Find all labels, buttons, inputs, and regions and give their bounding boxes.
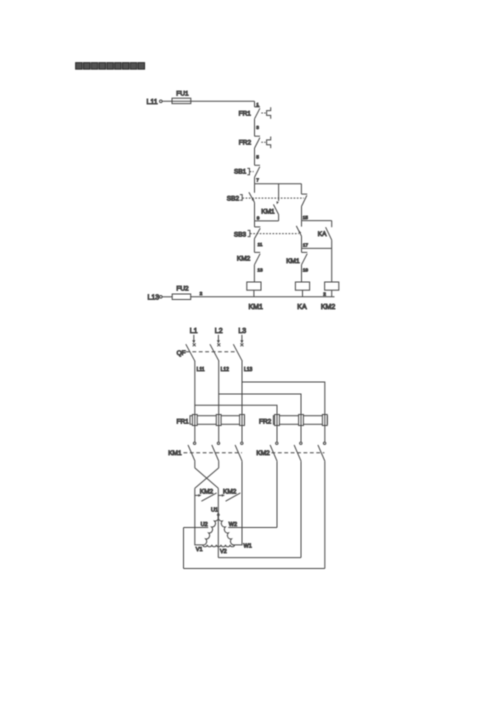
wire FR1 pole2 to KM1 <box>218 415 220 442</box>
dashed link SB3 to right branch <box>250 233 299 235</box>
contact KA (NO) <box>318 221 332 249</box>
contact SB3 right branch (NO) <box>296 221 301 249</box>
contact KM1 interlock (NC) <box>286 248 307 265</box>
svg-text:L13: L13 <box>244 367 253 373</box>
wire L13 crossover to FR2 pole3 <box>242 382 325 415</box>
svg-text:L3: L3 <box>238 328 246 335</box>
svg-text:FU1: FU1 <box>176 91 189 98</box>
wire KM2 pole3 down to rail B <box>324 461 326 568</box>
svg-text:KA: KA <box>318 231 327 238</box>
svg-text:KM1: KM1 <box>286 258 300 265</box>
svg-text:L12: L12 <box>221 367 230 373</box>
svg-text:7: 7 <box>256 177 259 183</box>
wire FR2 pole1 to KM2 <box>276 415 278 442</box>
svg-text:U1: U1 <box>211 507 218 513</box>
wire node17 horizontal <box>302 247 332 249</box>
svg-text:KM2: KM2 <box>200 488 214 495</box>
svg-text:3: 3 <box>256 125 259 131</box>
wire QF pole2 down <box>218 361 220 415</box>
svg-text:V2: V2 <box>220 549 227 555</box>
svg-text:V1: V1 <box>196 547 203 553</box>
svg-text:FR2: FR2 <box>259 418 272 425</box>
svg-text:17: 17 <box>303 242 309 248</box>
contactor KM2 main contacts <box>256 442 325 461</box>
svg-text:KA: KA <box>297 304 307 311</box>
svg-text:KM2: KM2 <box>256 450 270 457</box>
coil KM2 <box>321 282 339 311</box>
wire left drop U2 <box>183 528 185 569</box>
wire FR1 pole3 to KM1 <box>241 415 243 442</box>
contactor KM1 main contacts <box>168 442 243 461</box>
pushbutton SB1 (NC stop) <box>234 165 260 177</box>
wire L11 crossover to FR2 pole1 <box>195 405 277 414</box>
svg-text:19: 19 <box>303 268 309 274</box>
svg-text:QF: QF <box>177 350 186 357</box>
wire L13 to FU2 <box>162 296 172 298</box>
svg-text:SB3: SB3 <box>234 232 247 239</box>
node L3 supply <box>238 328 246 346</box>
wire SB1 to node 7 <box>254 177 256 184</box>
wire KM2 pole2 down to rail A <box>300 461 302 557</box>
title 双速电动机控制电路 (CJK drawn as blocks) <box>76 63 145 70</box>
wire rail A (V2) <box>218 557 301 559</box>
wire to KM1 coil <box>253 265 255 282</box>
contact KM2 star bridge right <box>218 488 240 501</box>
wire KM1 pole2 to U1/V2 <box>217 488 219 557</box>
wire FR2 to SB1 <box>254 148 256 165</box>
wire node9 horizontal <box>255 220 279 222</box>
node L1 supply <box>190 328 198 346</box>
wire to KM2 coil <box>331 248 333 282</box>
coil KM1 <box>247 282 263 311</box>
contact SB2 right branch (NO) <box>301 184 307 221</box>
svg-text:L1: L1 <box>190 328 198 335</box>
motor winding delta U1-V1-W1 <box>196 507 252 555</box>
breaker QF <box>177 344 243 361</box>
wire KM1 pole1 to V1 <box>195 488 203 545</box>
svg-text:FR1: FR1 <box>177 418 190 425</box>
wire U2 tap <box>184 527 209 529</box>
svg-text:KM1: KM1 <box>261 209 275 216</box>
svg-text:KM2: KM2 <box>223 488 237 495</box>
contact KM2 interlock (NC) <box>237 239 260 265</box>
wire QF pole3 down <box>241 361 243 415</box>
wire SB2 to node 9 <box>254 203 256 221</box>
svg-text:2: 2 <box>200 291 203 297</box>
pushbutton SB2 (NO start, left contact) <box>227 184 255 203</box>
wire W2 tap <box>228 527 277 529</box>
svg-text:W1: W1 <box>244 544 252 550</box>
svg-text:2: 2 <box>323 291 326 297</box>
wire L11 to FU1 <box>162 100 254 102</box>
dashed link SB2 to right branch <box>242 197 304 199</box>
wire KM1 pole3 to W1 <box>235 461 242 545</box>
wire QF pole1 down <box>194 361 196 415</box>
svg-text:13: 13 <box>257 268 263 274</box>
svg-text:FR1: FR1 <box>239 110 252 117</box>
svg-text:5: 5 <box>256 154 259 160</box>
svg-text:SB1: SB1 <box>234 168 247 175</box>
thermal relay FR1 <box>177 415 245 426</box>
contact KM2 star bridge left <box>195 488 217 501</box>
wire crossover X below KM1 <box>195 461 219 488</box>
wire top right corner down to FR1 <box>254 101 256 107</box>
svg-text:KM1: KM1 <box>249 304 264 311</box>
wire node7 horizontal <box>255 183 302 185</box>
wire FR2 pole2 to KM2 <box>300 415 302 442</box>
svg-text:KM2: KM2 <box>237 256 251 263</box>
node L11 terminal <box>147 99 163 106</box>
wire KM2 pole1 down <box>276 461 278 527</box>
node L2 supply <box>215 328 223 346</box>
wire to KA coil <box>301 265 303 282</box>
svg-text:KM2: KM2 <box>321 304 336 311</box>
svg-text:L11: L11 <box>147 99 158 106</box>
wire FR2 pole3 to KM2 <box>324 415 326 442</box>
wire FR1 to FR2 <box>254 119 256 137</box>
wire L12 crossover to FR2 pole2 <box>219 394 301 415</box>
wire bottom rail node 2 <box>191 296 335 298</box>
wire rail B (U2) <box>184 568 325 570</box>
pushbutton SB3 (NC, left contact) <box>234 221 260 239</box>
svg-text:FR2: FR2 <box>239 140 252 147</box>
svg-text:L2: L2 <box>215 328 223 335</box>
wire node15 horizontal <box>302 220 332 222</box>
svg-text:11: 11 <box>258 242 263 248</box>
coil KA <box>295 282 309 311</box>
svg-text:FU2: FU2 <box>176 285 189 292</box>
node L13 terminal <box>148 295 163 302</box>
wire FR1 pole1 to KM1 <box>194 415 196 442</box>
contact KM1 self-holding (NO) <box>261 184 279 221</box>
fuse FU2 <box>172 285 191 299</box>
thermal contact FR2 (NC) <box>239 136 271 148</box>
svg-text:SB2: SB2 <box>227 195 240 202</box>
svg-text:L11: L11 <box>197 367 205 373</box>
thermal relay FR2 <box>259 415 327 426</box>
svg-text:L13: L13 <box>148 295 160 302</box>
fuse FU1 <box>172 91 191 104</box>
thermal contact FR1 (NC) <box>239 107 271 119</box>
svg-text:KM1: KM1 <box>168 450 182 457</box>
